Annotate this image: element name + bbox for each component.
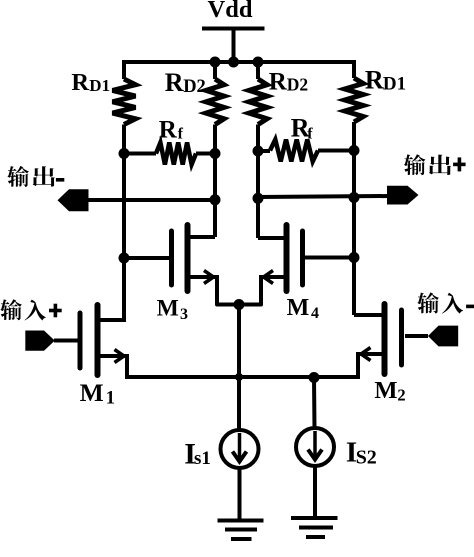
- svg-text:R: R: [269, 69, 288, 96]
- svg-text:S2: S2: [356, 446, 377, 468]
- svg-text:D1: D1: [383, 74, 406, 95]
- svg-text:R: R: [71, 69, 89, 96]
- svg-text:M: M: [287, 295, 310, 321]
- svg-text:D2: D2: [183, 77, 206, 97]
- svg-text:Vdd: Vdd: [208, 0, 253, 23]
- svg-text:2: 2: [397, 385, 405, 404]
- svg-text:R: R: [159, 116, 178, 143]
- svg-text:M: M: [80, 378, 104, 407]
- svg-text:s1: s1: [194, 448, 211, 469]
- svg-text:R: R: [165, 68, 184, 97]
- svg-text:M: M: [374, 377, 397, 404]
- svg-text:3: 3: [180, 306, 188, 323]
- svg-text:f: f: [178, 126, 184, 143]
- svg-text:M: M: [157, 295, 179, 321]
- svg-text:D2: D2: [287, 75, 308, 95]
- svg-text:4: 4: [311, 305, 319, 322]
- svg-text:R: R: [365, 65, 384, 94]
- svg-text:1: 1: [106, 389, 115, 409]
- svg-text:D1: D1: [89, 76, 110, 95]
- svg-text:f: f: [307, 126, 313, 143]
